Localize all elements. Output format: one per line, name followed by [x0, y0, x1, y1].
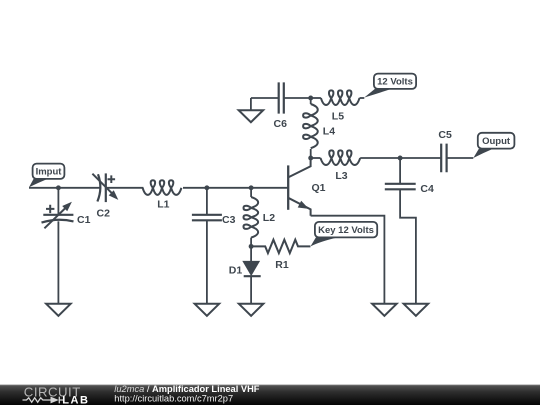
- node 12 Volts flag: [364, 74, 416, 98]
- inductor L5: [311, 90, 365, 105]
- svg-text:12 Volts: 12 Volts: [377, 77, 413, 88]
- label L2: [263, 212, 275, 224]
- node Ouput flag: [473, 133, 514, 158]
- transistor Q1: [288, 158, 310, 216]
- wire input to C2: [29, 187, 100, 189]
- wire C6 to ground: [250, 98, 252, 110]
- label L4: [323, 126, 335, 138]
- node junction C3: [204, 185, 209, 190]
- svg-text:C5: C5: [438, 129, 452, 141]
- ground: [195, 304, 220, 316]
- node junction L2: [249, 185, 254, 190]
- label L5: [332, 111, 344, 123]
- node Key 12 Volts flag: [311, 222, 378, 247]
- node Imput flag: [29, 164, 64, 188]
- capacitor C1: [42, 188, 74, 304]
- diode D1: [244, 246, 261, 303]
- ground: [46, 304, 71, 316]
- svg-text:C6: C6: [274, 118, 288, 130]
- node junction collector/L4/L3: [308, 156, 313, 161]
- wire C3 node to L2 node: [207, 187, 251, 189]
- svg-text:C4: C4: [420, 183, 434, 195]
- svg-text:L3: L3: [335, 170, 347, 182]
- ground: [404, 304, 429, 316]
- inductor L2: [244, 188, 259, 247]
- svg-text:L4: L4: [323, 126, 335, 138]
- inductor L1: [143, 180, 182, 195]
- capacitor C5: [400, 144, 473, 173]
- label C2: [97, 208, 111, 220]
- svg-text:lu2mca / Amplificador Lineal V: lu2mca / Amplificador Lineal VHF: [114, 384, 260, 394]
- label R1: [275, 259, 289, 271]
- wire L2 node to Q1 base: [251, 187, 288, 189]
- capacitor C3: [192, 188, 222, 304]
- svg-text:Q1: Q1: [312, 182, 326, 194]
- node junction L2/D1/R1: [249, 244, 254, 249]
- wire L1 to C3 node: [183, 187, 207, 189]
- label C6: [274, 118, 288, 130]
- label Q1: [312, 182, 326, 194]
- capacitor C2: [92, 173, 118, 202]
- svg-text:D1: D1: [229, 265, 243, 277]
- label C5: [438, 129, 452, 141]
- resistor R1: [251, 240, 310, 253]
- node junction C1: [56, 185, 61, 190]
- label C1: [77, 214, 91, 226]
- inductor L4: [303, 98, 318, 158]
- inductor L3: [311, 150, 400, 165]
- svg-text:R1: R1: [275, 259, 289, 271]
- node junction C4: [398, 156, 403, 161]
- wire emitter to ground: [311, 216, 385, 304]
- svg-text:Ouput: Ouput: [482, 136, 511, 147]
- wire C2 to L1: [106, 187, 144, 189]
- svg-text:C3: C3: [222, 214, 236, 226]
- svg-text:L1: L1: [157, 199, 169, 211]
- svg-text:http://circuitlab.com/c7mr2p7: http://circuitlab.com/c7mr2p7: [114, 394, 233, 404]
- svg-text:L2: L2: [263, 212, 275, 224]
- label D1: [229, 265, 243, 277]
- svg-text:L5: L5: [332, 111, 344, 123]
- ground: [239, 110, 264, 122]
- ground: [239, 304, 264, 316]
- label C4: [420, 183, 434, 195]
- CircuitLab logo: [23, 384, 90, 405]
- svg-text:Key 12 Volts: Key 12 Volts: [318, 225, 374, 236]
- label L1: [157, 199, 169, 211]
- svg-text:Imput: Imput: [36, 167, 63, 178]
- capacitor C6: [251, 82, 311, 113]
- node junction C6/L5/L4: [308, 96, 313, 101]
- ground: [372, 304, 397, 316]
- svg-text:LAB: LAB: [62, 395, 89, 405]
- svg-text:C1: C1: [77, 214, 91, 226]
- label L3: [335, 170, 347, 182]
- svg-text:C2: C2: [97, 208, 111, 220]
- label C3: [222, 214, 236, 226]
- capacitor C4: [385, 158, 416, 304]
- CircuitLab footer bar: [0, 385, 540, 405]
- footer text: [114, 384, 260, 404]
